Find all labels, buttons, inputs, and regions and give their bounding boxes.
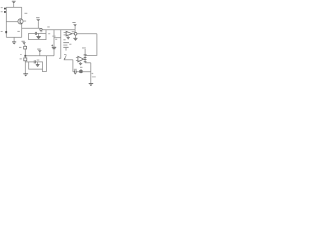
tank loop L2 — [29, 60, 43, 69]
junction tick — [52, 35, 55, 37]
wire U2 out — [84, 58, 86, 60]
power symbol VCC2 — [36, 17, 40, 28]
label U1 — [72, 31, 75, 32]
junction dot — [24, 55, 26, 57]
wire tank2 link — [25, 61, 28, 63]
node C1 blob on bus — [1, 31, 7, 33]
wire stack to right vertical — [85, 62, 91, 64]
power symbol VCC3 — [72, 22, 76, 30]
label GND net — [92, 76, 96, 77]
wire input loop bottom — [6, 36, 21, 38]
label above wire — [47, 26, 49, 27]
label C1 — [17, 31, 19, 32]
terminal pad P2 — [1, 11, 6, 13]
power symbol VCC4 — [37, 49, 41, 56]
label R2 — [19, 47, 21, 48]
wire U1 out — [72, 33, 74, 35]
wire collector vertical — [21, 7, 23, 19]
label Q1 — [23, 21, 26, 22]
label C7 — [74, 69, 77, 70]
label C3 — [55, 39, 57, 40]
wire coupling branch — [42, 56, 46, 72]
connector circle J1 — [40, 28, 42, 30]
arrow electrode — [64, 55, 66, 59]
wire C3 branch vertical — [53, 30, 55, 47]
label U2 power — [82, 47, 86, 48]
resistor R3 — [24, 57, 27, 74]
wire emitter node to right — [22, 27, 40, 29]
crystal X1 — [80, 70, 82, 73]
wire bottom rail — [73, 71, 91, 73]
resistor stack R4 — [84, 55, 87, 63]
power symbol VCC1 — [12, 1, 16, 7]
ground GND1 — [12, 37, 16, 44]
tank loop L1 — [29, 32, 46, 40]
ground GND3 (under U1) — [67, 36, 70, 39]
wire mid horizontal — [25, 55, 54, 57]
ground GND4 (under J2) — [73, 35, 77, 40]
transistor Q1 — [18, 19, 23, 24]
wire opamp1 input vertical — [59, 30, 61, 58]
power symbol VCC5 — [22, 41, 26, 47]
op-amp U1 — [64, 31, 72, 36]
op-amp U2 — [76, 56, 84, 62]
label R3 — [20, 58, 22, 59]
wire J2 to right — [77, 33, 97, 35]
label mic — [64, 54, 66, 55]
wire to opamp branch — [54, 37, 61, 39]
label X1 — [80, 67, 82, 68]
wire vcc drop to J2 — [74, 30, 76, 33]
terminal pad P1 — [1, 7, 6, 9]
label tank1 — [40, 31, 42, 32]
label below C7 — [74, 73, 76, 74]
label right of vertical — [92, 73, 94, 74]
node IN bus wire — [5, 7, 7, 37]
wire right feedback vertical — [85, 34, 97, 56]
wire U2 power stem — [84, 49, 86, 55]
ground GND2 — [23, 74, 28, 77]
ground GND5 (under U2) — [79, 62, 82, 65]
label tank2 — [37, 60, 40, 61]
battery/crystal bars Y1 — [63, 42, 69, 50]
label node — [20, 54, 21, 55]
capacitor C7 — [75, 70, 76, 73]
wire right bottom vertical — [90, 63, 92, 84]
wire emitter down — [21, 24, 23, 37]
capacitor C4 polarized — [51, 45, 56, 56]
wire top — [6, 6, 21, 8]
label C2 — [48, 33, 50, 34]
varactor D2 — [36, 62, 40, 67]
wire mic out — [64, 59, 73, 61]
label Y1a — [63, 39, 65, 40]
ground GND6 — [89, 84, 94, 87]
wire tank1 drop — [45, 30, 47, 34]
connector circle J2 — [74, 32, 77, 35]
label R1 — [25, 13, 28, 14]
label Y1 — [69, 44, 71, 45]
varactor D1 — [36, 33, 40, 39]
wire main rail — [43, 29, 76, 31]
wire drop to bottom rail — [72, 60, 74, 72]
wire base — [6, 21, 18, 23]
resistor R2 — [24, 46, 27, 56]
